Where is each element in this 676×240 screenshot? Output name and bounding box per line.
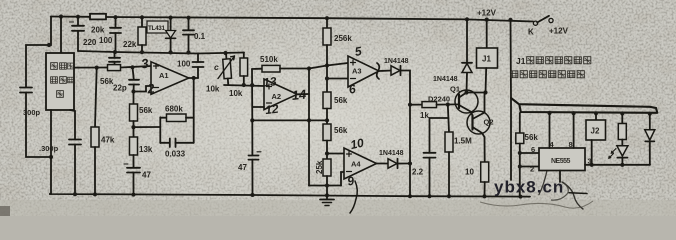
sensor box text 热电红外传感器 xyxy=(51,63,74,98)
TL431 shunt (zener symbol) xyxy=(170,18,172,30)
bus loop lower wire xyxy=(520,106,658,113)
svg-text:A2: A2 xyxy=(272,92,282,101)
svg-text:TL431: TL431 xyxy=(148,25,165,32)
ground rail (bottom) xyxy=(49,194,530,197)
capacitor 47 (electrolytic) xyxy=(127,167,140,169)
annotation J1及延时电路最好 xyxy=(516,56,591,66)
svg-text:1N4148: 1N4148 xyxy=(384,58,409,65)
svg-text:300p: 300p xyxy=(23,108,41,117)
wire A2 lower network xyxy=(252,119,327,121)
svg-text:56k: 56k xyxy=(525,133,539,142)
wire A3 output xyxy=(379,70,391,73)
wire .300p to ground rail xyxy=(74,145,76,195)
resistor 680k (feedback) xyxy=(160,117,166,119)
LED xyxy=(617,146,628,156)
bus loop upper wire xyxy=(511,98,657,113)
resistor 47k xyxy=(95,68,97,127)
bottom scan shadow band xyxy=(0,200,676,216)
svg-text:10k: 10k xyxy=(229,89,243,98)
op-amp A4 xyxy=(344,148,377,179)
svg-text:c: c xyxy=(214,62,219,72)
pin 7 squiggle on A3 output xyxy=(377,63,380,79)
wire to A3 - input xyxy=(327,78,348,80)
svg-text:J2: J2 xyxy=(591,127,600,136)
op-amp A3 xyxy=(348,56,379,87)
op-amp A1 xyxy=(151,62,189,95)
svg-text:J1: J1 xyxy=(482,55,491,64)
capacitor 300p xyxy=(20,87,32,89)
transistor Q2 xyxy=(467,111,490,134)
svg-text:56k: 56k xyxy=(139,106,153,115)
wire sensor box bottom to ground rail xyxy=(50,110,52,194)
capacitor .300p xyxy=(69,139,81,141)
wire A2 output xyxy=(297,93,309,95)
svg-text:10k: 10k xyxy=(206,85,220,94)
svg-text:256k: 256k xyxy=(334,34,352,43)
svg-text:25k: 25k xyxy=(315,160,324,174)
svg-text:+12V: +12V xyxy=(549,27,569,36)
svg-text:47: 47 xyxy=(142,171,151,180)
svg-text:0.1: 0.1 xyxy=(194,32,206,41)
transistor Q1 xyxy=(455,90,478,113)
resistor 10 (Q2 emitter) xyxy=(484,137,486,162)
svg-text:0.033: 0.033 xyxy=(165,150,186,159)
svg-text:Q2: Q2 xyxy=(484,118,494,127)
handwritten wave near watermark xyxy=(480,201,593,208)
wire 555 pin2 xyxy=(520,166,539,168)
sensor box xyxy=(46,53,74,110)
svg-text:J1: J1 xyxy=(516,56,526,66)
wire A1 inverting input jog xyxy=(134,86,152,92)
svg-text:1N4148: 1N4148 xyxy=(433,76,458,83)
svg-text:.300p: .300p xyxy=(39,144,59,153)
long vertical node wire xyxy=(308,69,310,186)
555 pin1 stub xyxy=(559,171,561,183)
svg-text:10: 10 xyxy=(465,168,474,177)
svg-text:680k: 680k xyxy=(165,105,183,114)
timer 555 box xyxy=(539,148,585,171)
resistor 56k (divider upper) xyxy=(323,92,331,109)
capacitor 22p xyxy=(133,67,134,79)
resistor 22k xyxy=(141,17,143,27)
svg-text:510k: 510k xyxy=(260,55,278,64)
svg-text:2.2: 2.2 xyxy=(412,168,424,177)
svg-text:A3: A3 xyxy=(352,67,362,76)
feedback left bus xyxy=(159,117,161,143)
annotation 安装在电话机内部 xyxy=(511,71,585,78)
svg-text:NE555: NE555 xyxy=(551,158,571,165)
left column: 510k tie / pin12 / 47u xyxy=(251,69,253,120)
svg-text:A4: A4 xyxy=(351,160,361,169)
feedback right bus to A1 output xyxy=(193,78,195,143)
svg-text:+12V: +12V xyxy=(477,9,497,18)
resistor 1.5M xyxy=(448,105,449,133)
wire 555 pin4 xyxy=(549,113,551,148)
handwritten flourish under 555 xyxy=(562,182,583,209)
resistor 56k (555 trigger pull-up) xyxy=(519,113,521,133)
svg-text:13: 13 xyxy=(263,74,278,89)
capacitor 100 (top) xyxy=(115,17,117,27)
resistor 13k xyxy=(133,127,135,137)
svg-text:1k: 1k xyxy=(420,111,429,120)
TL431 box label xyxy=(147,21,168,33)
wire A2 pin12 xyxy=(252,106,264,108)
svg-text:D2240: D2240 xyxy=(428,95,450,104)
svg-text:56k: 56k xyxy=(100,77,114,86)
op-amp A2 xyxy=(264,79,297,110)
diode 1N4148 (A3 output) xyxy=(391,66,400,75)
svg-text:13k: 13k xyxy=(139,145,153,154)
resistor 256k xyxy=(326,18,328,28)
wire bandpass to A2 + input xyxy=(224,85,264,86)
wire sensor top feed xyxy=(49,17,51,46)
svg-text:56k: 56k xyxy=(334,96,348,105)
svg-text:47: 47 xyxy=(238,163,247,172)
top +V rail xyxy=(51,17,533,22)
wire sensor bottom-right to .300p xyxy=(70,110,75,139)
capacitor 0.1 xyxy=(188,18,190,30)
wire to bandpass network xyxy=(198,53,244,54)
ground symbol xyxy=(326,195,328,199)
resistor 1k xyxy=(422,102,437,108)
svg-text:A1: A1 xyxy=(159,71,169,80)
wire 555 pin6 xyxy=(520,152,539,154)
wire Q1 collector riser xyxy=(466,73,469,93)
node xyxy=(47,43,51,47)
comparator hysteresis wire xyxy=(309,185,341,187)
resistor 20k inline in top rail xyxy=(90,14,106,20)
diode 1N4148 (relay clamp) xyxy=(462,64,472,73)
wire detector node to Q1 base xyxy=(410,104,422,106)
relay J2 box xyxy=(595,113,597,120)
wire to 300p xyxy=(26,45,49,87)
resistor 56k (A1 divider) xyxy=(133,92,135,105)
divider column wire xyxy=(326,66,328,93)
svg-text:1.5M: 1.5M xyxy=(454,137,472,146)
capacitor 47 (A2 column electrolytic) xyxy=(251,120,253,155)
wire divider tap to A4 + input xyxy=(327,153,344,155)
wire 555 pin8 xyxy=(573,113,575,148)
svg-text:1N4148: 1N4148 xyxy=(379,150,404,157)
feedback tap wire xyxy=(134,126,161,128)
node dots on top rail xyxy=(59,15,513,23)
wire to 256k node and A3 + input xyxy=(309,63,348,69)
svg-text:3: 3 xyxy=(588,157,592,166)
resistor 10k (to A2) xyxy=(243,53,245,59)
svg-text:12: 12 xyxy=(264,102,279,117)
wire A4 output xyxy=(377,163,389,165)
resistor 56k (horizontal, sensor load) xyxy=(108,65,121,71)
svg-text:22p: 22p xyxy=(113,84,127,93)
resistor (LED dropper) xyxy=(621,114,623,124)
svg-text:ybx8.cn: ybx8.cn xyxy=(494,178,564,197)
switch K xyxy=(533,21,537,25)
+12V feed to timer section xyxy=(510,20,513,180)
relay J1 box xyxy=(486,20,488,48)
svg-text:56k: 56k xyxy=(334,126,348,135)
diode 1N4148 (A4 output) xyxy=(388,159,397,168)
resistor 510k xyxy=(252,68,262,70)
svg-text:K: K xyxy=(528,28,534,37)
wire 555 pin3 output xyxy=(585,164,650,166)
svg-text:20k: 20k xyxy=(91,26,105,35)
resistor 25k (divider lower) xyxy=(323,159,331,176)
wire rail corner to sensor box top xyxy=(60,17,62,53)
svg-text:220: 220 xyxy=(83,38,97,47)
svg-text:2: 2 xyxy=(530,165,534,174)
collector link wire xyxy=(467,92,486,94)
thermistor c xyxy=(222,53,232,85)
capacitor 0.033 (feedback) xyxy=(160,142,169,144)
svg-text:6: 6 xyxy=(531,145,535,154)
mid reference rail xyxy=(78,51,198,54)
capacitor 220 (electrolytic) xyxy=(77,17,79,26)
coupling capacitor under mid rail xyxy=(114,52,116,58)
svg-text:100: 100 xyxy=(177,60,191,69)
capacitor 100 (A1 output coupling) xyxy=(197,67,199,78)
svg-text:22k: 22k xyxy=(123,40,137,49)
capacitor 2.2 branch xyxy=(430,118,449,153)
resistor 56k (divider mid) xyxy=(323,124,331,141)
svg-text:Q1: Q1 xyxy=(450,85,460,94)
wire 300p to lower join xyxy=(26,93,51,158)
paper lighting vignette xyxy=(0,0,1,1)
svg-text:47k: 47k xyxy=(101,136,115,145)
wire A1 output xyxy=(189,77,198,79)
svg-text:100: 100 xyxy=(99,36,113,45)
diode (relay J2 clamp) xyxy=(649,114,651,130)
svg-text:8: 8 xyxy=(569,140,573,149)
wire sensor output to A1 + input xyxy=(74,66,151,68)
